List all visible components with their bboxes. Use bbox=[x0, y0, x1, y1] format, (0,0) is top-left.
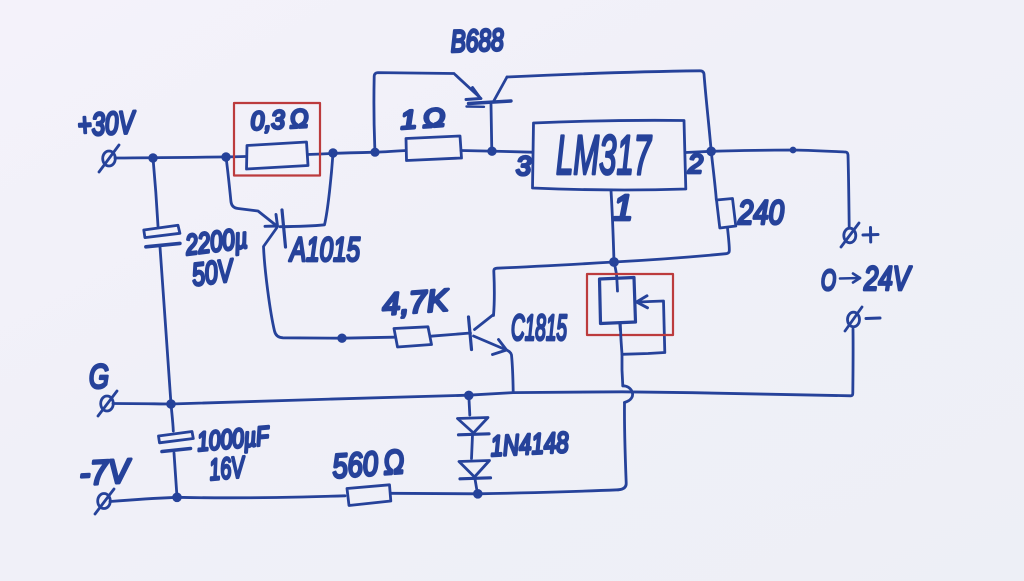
node junction pin1 bbox=[611, 259, 618, 266]
svg-text:B688: B688 bbox=[450, 22, 505, 59]
transistor Q A1015 emitter arrow bbox=[265, 215, 278, 227]
diode D1 cathode bar bbox=[459, 434, 490, 435]
svg-text:+30V: +30V bbox=[76, 104, 137, 143]
transistor Q B688 emitter bbox=[455, 75, 481, 99]
wire hop over G rail bbox=[623, 386, 633, 403]
wire +30V rail bbox=[115, 151, 532, 159]
capacitor C 2200u plate bottom bbox=[146, 243, 180, 246]
terminal G bbox=[98, 391, 117, 416]
wire hop to -7V rail bbox=[618, 403, 626, 490]
wire G rail bbox=[113, 329, 853, 404]
wire A1015 emitter feed bbox=[226, 157, 275, 225]
transistor Q B688 collector bbox=[494, 77, 507, 101]
svg-text:0,3 Ω: 0,3 Ω bbox=[250, 103, 309, 136]
wire B688 loop left bbox=[374, 73, 454, 153]
wire 240 bottom to pin1 rail bbox=[494, 228, 730, 316]
transistor Q A1015 base bar bbox=[282, 210, 286, 247]
svg-text:3: 3 bbox=[516, 151, 531, 181]
wire pot wiper link bbox=[622, 301, 665, 354]
svg-text:O: O bbox=[821, 265, 836, 297]
transistor Q C1815 emitter arrow bbox=[493, 340, 507, 355]
transistor Q C1815 emitter bbox=[474, 336, 505, 349]
node junction B688 loop bbox=[372, 149, 378, 155]
transistor Q B688 base bar bbox=[469, 101, 512, 104]
wire pin2 to + output bbox=[686, 150, 850, 227]
svg-text:50V: 50V bbox=[190, 252, 237, 293]
diode D1 bbox=[458, 418, 489, 434]
svg-text:G: G bbox=[89, 358, 109, 396]
red highlight box pot bbox=[587, 274, 673, 335]
terminal - output bbox=[845, 307, 862, 331]
wire cap1 branch bbox=[153, 158, 171, 404]
wire diode bottom link bbox=[475, 479, 478, 494]
wire A1015 base to R0.3 right bbox=[280, 153, 333, 227]
node junction G x diodes bbox=[465, 392, 472, 399]
wire A1015 collector down to 4.7K bbox=[264, 228, 471, 339]
svg-text:560 Ω: 560 Ω bbox=[331, 443, 405, 486]
transistor Q C1815 base bar bbox=[469, 317, 472, 350]
wire -7V rail bbox=[110, 490, 618, 502]
node junction -7V x diodes bbox=[474, 490, 481, 497]
node junction B688 base bbox=[489, 148, 496, 155]
svg-text:LM317: LM317 bbox=[556, 123, 652, 186]
svg-text:1 Ω: 1 Ω bbox=[399, 102, 446, 135]
node junction A1015 base bbox=[330, 150, 337, 157]
resistor R 4.7K bbox=[394, 327, 432, 347]
wire cap2 branch bbox=[171, 404, 177, 497]
capacitor C 1000uF plate top bbox=[159, 432, 194, 443]
svg-text:24V: 24V bbox=[863, 260, 912, 298]
diode D2 cathode bar bbox=[460, 478, 491, 479]
svg-text:C1815: C1815 bbox=[511, 307, 568, 348]
node junction -7V x cap bbox=[174, 494, 181, 501]
resistor R 0.3ohm bbox=[247, 142, 309, 169]
wire C1815 emitter to G rail bbox=[505, 350, 513, 392]
wire pot top feed bbox=[614, 263, 618, 292]
terminal -7V bbox=[95, 489, 114, 514]
svg-text:4,7K: 4,7K bbox=[381, 282, 451, 322]
pot wiper arrow bbox=[637, 296, 648, 308]
diode D2 bbox=[459, 461, 490, 478]
svg-text:1N4148: 1N4148 bbox=[490, 427, 570, 463]
wire B688 collector top bbox=[507, 71, 711, 152]
svg-text:1: 1 bbox=[613, 187, 633, 228]
capacitor C 2200u plate top bbox=[144, 225, 180, 237]
resistor R 1ohm bbox=[406, 136, 462, 161]
label - sign bbox=[866, 317, 880, 321]
svg-text:-7V: -7V bbox=[78, 452, 133, 493]
capacitor C 1000uF plate bottom bbox=[162, 449, 191, 452]
resistor R 240 bbox=[717, 199, 736, 229]
terminal +30V bbox=[99, 145, 119, 172]
node junction pin2 bbox=[708, 148, 715, 155]
wire to 240 top bbox=[711, 151, 716, 199]
terminal + output bbox=[841, 223, 859, 247]
transistor Q B688 bar understroke bbox=[467, 105, 485, 108]
wire pot bottom down to hop bbox=[620, 324, 623, 386]
node small dot pin2 wire bbox=[791, 148, 795, 152]
wire diode branch top bbox=[469, 395, 470, 415]
label + sign bbox=[863, 228, 878, 243]
svg-text:240: 240 bbox=[737, 194, 784, 232]
op-amp U LM317 box bbox=[533, 120, 686, 189]
svg-text:16V: 16V bbox=[208, 451, 248, 487]
wire pot bottom stub bbox=[618, 324, 621, 331]
node junction collector wire bbox=[339, 335, 346, 342]
wire diode mid link bbox=[472, 435, 473, 459]
node junction A1015 emitter bbox=[223, 154, 230, 161]
transistor Q B688 emitter arrow bbox=[466, 88, 481, 100]
node junction cap1 bbox=[150, 155, 157, 162]
svg-text:A1015: A1015 bbox=[289, 231, 360, 269]
potentiometer VR box bbox=[600, 278, 636, 324]
wire pin1 down bbox=[611, 191, 614, 263]
red highlight box R0.3 bbox=[234, 103, 320, 176]
transistor Q C1815 collector bbox=[475, 315, 494, 330]
resistor R 560ohm bbox=[347, 485, 391, 506]
wire B688 base down bbox=[490, 105, 494, 152]
node junction G x cap bbox=[168, 401, 175, 408]
